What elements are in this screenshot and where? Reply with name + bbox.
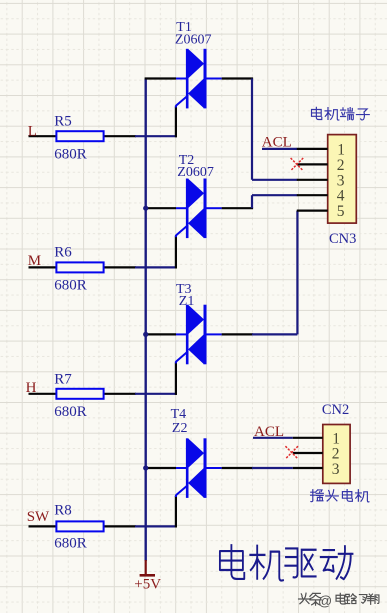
no-ERC marker X at CN3 pin2 [291, 158, 304, 171]
connector CN3 pin 1 [297, 142, 345, 159]
svg-text:R8: R8 [54, 503, 72, 519]
svg-text:Z1: Z1 [179, 294, 195, 309]
triac T2 designator [177, 153, 214, 180]
wire row SW black segment [29, 525, 137, 527]
svg-text:680R: 680R [54, 277, 87, 293]
triac T4 designator [171, 407, 188, 436]
node net label M [28, 253, 41, 269]
node junction bus/T2 [143, 206, 148, 211]
svg-text:Z2: Z2 [172, 421, 188, 436]
wire T2 right to CN3 pin4 [222, 195, 298, 208]
connector CN3 pin 5 [297, 203, 345, 220]
watermark 头条@电路飞翔 [299, 593, 379, 609]
triac T3 Z1 [176, 305, 222, 365]
wire T4 left [146, 467, 176, 469]
svg-text:680R: 680R [54, 404, 87, 420]
wire row L navy segment to T1 gate [135, 135, 177, 137]
triac T4 Z2 [176, 438, 222, 498]
wire T1 left (bus corner to T1 MT pin) [145, 77, 176, 79]
svg-text:CN2: CN2 [322, 402, 349, 418]
connector CN3 body [328, 135, 357, 224]
node net label H [26, 380, 37, 396]
triac T1 designator [175, 20, 212, 48]
resistor R5 [54, 114, 103, 163]
svg-text:CN3: CN3 [329, 231, 356, 247]
text 电机端子 (motor terminals) [312, 107, 370, 120]
svg-text:H: H [26, 380, 37, 396]
connector CN2 pin 3 [293, 461, 340, 478]
wire row M navy segment to T2 gate [135, 266, 177, 268]
svg-text:680R: 680R [54, 536, 87, 552]
text 电机驱动 (motor drive title) [220, 545, 353, 580]
connector CN3 designator [329, 231, 356, 247]
svg-text:5: 5 [337, 203, 345, 220]
resistor R8 [54, 503, 103, 552]
wire row SW navy segment to T4 gate [135, 525, 177, 527]
wire T1 right to CN3 pin3 [222, 79, 298, 180]
wire +5V vertical bus [144, 79, 146, 562]
svg-text:R6: R6 [54, 245, 72, 261]
svg-text:T4: T4 [171, 407, 187, 422]
svg-text:@: @ [318, 593, 332, 609]
svg-text:3: 3 [332, 461, 340, 478]
svg-text:R7: R7 [54, 371, 72, 387]
wire T3 gate vertical [175, 362, 177, 395]
svg-text:+5V: +5V [134, 576, 161, 592]
wire T1 gate vertical [175, 107, 177, 138]
wire ACL stub to CN2 pin1 [253, 437, 293, 439]
triac T1 Z0607 [176, 49, 222, 109]
text 摇头电机 (swing motor) [311, 490, 369, 502]
node net label ACL (CN3) [262, 134, 292, 150]
connector CN3 pin 3 [297, 172, 345, 189]
svg-text:SW: SW [27, 509, 50, 525]
svg-text:ACL: ACL [262, 134, 292, 150]
no-ERC marker X at CN2 pin2 [285, 446, 298, 459]
resistor R6 [54, 245, 103, 294]
svg-text:Z0607: Z0607 [175, 33, 212, 48]
wire T3 right to CN3 pin5 [222, 211, 298, 335]
connector CN2 body [323, 425, 350, 484]
node junction bus/T4 [143, 465, 148, 470]
wire T4 gate vertical [175, 496, 177, 528]
node junction bus/T3 [143, 332, 148, 337]
svg-text:680R: 680R [54, 147, 87, 163]
node net label SW [27, 509, 50, 525]
wire ACL stub to CN3 pin1 [262, 148, 297, 150]
connector CN2 pin 1 [293, 431, 340, 448]
svg-text:Z0607: Z0607 [177, 165, 214, 180]
node net label L [28, 124, 37, 140]
svg-text:R5: R5 [54, 114, 72, 130]
node net label ACL (CN2) [254, 424, 284, 440]
resistor R7 [54, 371, 103, 420]
wire row M black segment [29, 266, 137, 268]
power +5V [134, 560, 161, 592]
wire T2 left [146, 207, 176, 209]
triac T2 Z0607 [176, 179, 222, 239]
connector CN2 pin 2 [293, 446, 340, 463]
wire T3 left [146, 333, 176, 335]
connector CN2 designator [322, 402, 349, 418]
wire T4 right to CN2 pin3 [222, 467, 293, 469]
wire T2 gate vertical [175, 236, 177, 268]
triac T3 designator [176, 282, 194, 309]
connector CN3 pin 2 [297, 157, 345, 174]
wire row L black segment [29, 135, 137, 137]
connector CN3 pin 4 [297, 188, 345, 205]
wire row H black segment [29, 393, 137, 395]
svg-text:M: M [28, 253, 41, 269]
wire row H navy segment to T3 gate [135, 393, 177, 395]
svg-text:ACL: ACL [254, 424, 284, 440]
svg-text:L: L [28, 124, 37, 140]
